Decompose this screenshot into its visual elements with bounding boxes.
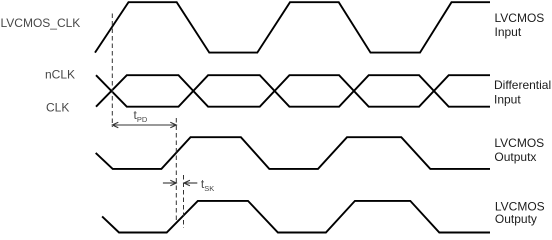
svg-text:CLK: CLK [46, 101, 69, 115]
svg-text:tPD: tPD [134, 108, 148, 124]
signal Qy waveform [102, 201, 490, 233]
svg-text:nCLK: nCLK [45, 68, 75, 82]
dashed reference line at Qx transition (middle) [175, 118, 177, 222]
tPD dimension arrow (double-headed) [112, 122, 176, 128]
tSK right arrow (pointing left at Qy line) [184, 180, 197, 186]
svg-text:LVCMOS: LVCMOS [495, 11, 545, 25]
svg-text:Outputy: Outputy [495, 212, 537, 226]
svg-text:LVCMOS_CLK: LVCMOS_CLK [1, 16, 81, 30]
svg-text:Outputx: Outputx [494, 150, 536, 164]
signal CLK waveform (differential line 2) [96, 75, 490, 107]
svg-text:Input: Input [495, 25, 522, 39]
dashed reference line at Qy transition (right) [183, 175, 185, 228]
tSK left arrow (pointing right at Qx line) [163, 180, 176, 186]
svg-text:Differential: Differential [494, 78, 551, 92]
svg-text:LVCMOS: LVCMOS [494, 136, 544, 150]
svg-text:tSK: tSK [201, 177, 214, 193]
svg-text:Input: Input [494, 93, 521, 107]
dashed reference line at input threshold (left) [111, 14, 113, 128]
signal nCLK waveform (differential line 1) [96, 75, 490, 107]
signal Qx waveform [96, 137, 490, 169]
signal LVCMOS_CLK waveform [95, 2, 490, 52]
